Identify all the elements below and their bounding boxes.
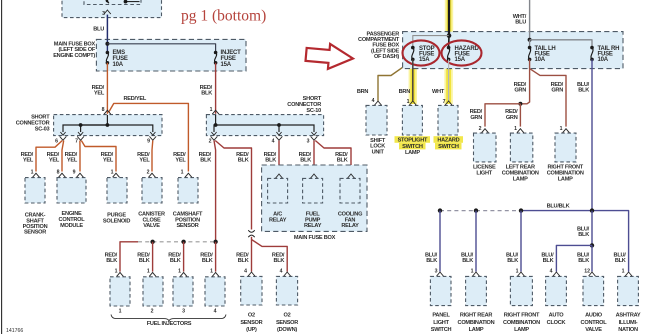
- junction node panel light switch: [438, 208, 442, 212]
- svg-text:SENSOR: SENSOR: [240, 320, 262, 326]
- wire RED/BLK to O2 sensor down: [252, 240, 288, 272]
- junction node injector 3: [181, 240, 185, 244]
- fuse STOP 15A: [411, 46, 415, 61]
- junction node right front lamp: [519, 208, 523, 212]
- label STOP FUSE 15A: [419, 46, 435, 63]
- component ashtray illumination box: [618, 276, 639, 305]
- pin connector O2 up: [248, 272, 255, 276]
- svg-text:CLOCK: CLOCK: [547, 320, 566, 326]
- pin number 3: [102, 11, 105, 17]
- svg-text:LAMP: LAMP: [558, 177, 573, 183]
- wire RED/YEL SC-03 pin6 to crankshaft position sensor: [36, 141, 62, 172]
- component audio control valve box: [583, 276, 604, 305]
- highlight over WHT wire to hazard switch: [444, 61, 452, 105]
- junction node tail fuses feed: [528, 38, 532, 42]
- wire RED/BLK bus to fuel injector 1: [120, 242, 138, 272]
- wire BLU/BLK to auto clock: [556, 245, 592, 271]
- svg-text:3: 3: [307, 138, 310, 144]
- label RIGHT FRONT COMBINATION LAMP: [503, 313, 540, 333]
- label INJECT FUSE 15A: [221, 50, 242, 68]
- label CANISTER CLOSE VALVE: [138, 211, 165, 229]
- pin number 4 O2 down: [280, 269, 283, 275]
- svg-text:ENGINE COMPT): ENGINE COMPT): [53, 53, 95, 59]
- junction node EMS/INJECT split: [105, 42, 109, 46]
- cylinder number 4: [214, 308, 217, 314]
- svg-text:1: 1: [516, 269, 519, 275]
- svg-text:LAMP: LAMP: [469, 327, 484, 333]
- label ASHTRAY ILLUMINATION: [616, 313, 641, 333]
- svg-text:1: 1: [514, 126, 517, 132]
- pin connector ECM 9: [77, 173, 84, 177]
- SC-10 internal stub pin4: [278, 125, 280, 132]
- pin connector fuel pump relay: [311, 174, 318, 178]
- component camshaft position sensor box: [178, 178, 198, 203]
- svg-text:1: 1: [111, 170, 114, 176]
- wire branch to stop fuse: [413, 36, 449, 48]
- svg-text:LAMP: LAMP: [513, 177, 528, 183]
- pin connector left rear combination lamp: [517, 129, 524, 133]
- svg-text:ASHTRAY: ASHTRAY: [616, 313, 641, 319]
- label RED/YEL crankshaft: [21, 152, 34, 164]
- pin connector ashtray illumination: [625, 272, 632, 276]
- component right front combination lamp (mid) box: [555, 133, 576, 162]
- svg-text:SWITCH: SWITCH: [402, 144, 423, 150]
- component right rear combination lamp box: [466, 276, 487, 305]
- pin number 1 injector 1: [115, 269, 118, 275]
- junction node auto clock split: [590, 243, 594, 247]
- svg-text:BLU: BLU: [93, 27, 104, 33]
- svg-text:10A: 10A: [113, 62, 124, 68]
- svg-text:BLK: BLK: [201, 91, 212, 97]
- wire RED/YEL SC-03 pin7 to purge solenoid: [81, 141, 116, 172]
- label WHT hazard: [432, 89, 445, 95]
- wire RED/BLK SC-10 pin4 to A/C relay: [278, 141, 280, 172]
- svg-text:LIGHT: LIGHT: [476, 170, 492, 176]
- svg-text:O2: O2: [284, 313, 291, 319]
- pin number 7 SC-03: [75, 138, 78, 144]
- junction node right rear lamp: [474, 208, 478, 212]
- wire BRN stop fuse to stoplight switch: [412, 59, 414, 100]
- wire RED/BLK SC-10 pin2 to fuel injector bus: [214, 141, 216, 242]
- component fuel injector 2 box: [143, 277, 163, 306]
- svg-text:1: 1: [147, 269, 150, 275]
- pin connector injector 2: [149, 272, 156, 276]
- svg-text:15A: 15A: [455, 57, 466, 63]
- svg-text:SENSOR: SENSOR: [24, 230, 46, 236]
- brace under fuel injectors: [111, 315, 226, 321]
- svg-text:1: 1: [622, 269, 625, 275]
- label BLU/BLK audio control: [577, 252, 590, 264]
- label COOLING FAN RELAY: [338, 211, 362, 229]
- svg-text:141766: 141766: [6, 328, 23, 334]
- SC-03 internal bus right: [81, 125, 153, 132]
- svg-text:BLK: BLK: [507, 258, 518, 264]
- pin number 1 A/C relay: [274, 170, 277, 176]
- svg-text:YEL: YEL: [139, 158, 150, 164]
- svg-text:SC-03: SC-03: [35, 127, 50, 133]
- red circle around HAZARD fuse: [442, 40, 482, 65]
- junction node RED/GRN split: [518, 102, 522, 106]
- label LICENSE LIGHT: [473, 164, 496, 176]
- svg-text:2: 2: [151, 308, 154, 314]
- pin number 1 left rear lamp: [514, 126, 517, 132]
- label CAMSHAFT POSITION SENSOR: [173, 211, 203, 229]
- wire BLU/BLK bus to ashtray illumination: [521, 211, 629, 272]
- pin connector injector 4: [212, 272, 219, 276]
- label RED/BLK cooling fan relay: [335, 152, 348, 164]
- svg-text:BLK: BLK: [426, 258, 437, 264]
- pin connector injector 3: [180, 272, 187, 276]
- svg-text:YEL: YEL: [103, 158, 114, 164]
- svg-text:4: 4: [280, 269, 283, 275]
- svg-text:RELAY: RELAY: [341, 223, 359, 229]
- svg-text:6: 6: [55, 138, 58, 144]
- inner connector box of ignition switch: [84, 0, 141, 5]
- wire RED/BLK to fuel injector 3: [183, 242, 185, 272]
- pin number 2 canister: [147, 170, 150, 176]
- label RED/YEL (EMS feed): [92, 85, 105, 97]
- pin connector stoplight switch: [409, 101, 416, 105]
- svg-text:COMBINATION: COMBINATION: [547, 171, 584, 177]
- pin number 9 ECM: [73, 170, 76, 176]
- component auto clock box: [546, 276, 567, 305]
- page border line: [1, 0, 3, 334]
- svg-text:GRN: GRN: [514, 88, 526, 94]
- svg-text:BLK: BLK: [578, 232, 589, 238]
- pin connector O2 down: [284, 272, 291, 276]
- wire RED/BLK to fuel injector 4: [215, 242, 217, 272]
- svg-text:RIGHT FRONT: RIGHT FRONT: [504, 313, 540, 319]
- pin connector auto clock: [553, 272, 560, 276]
- svg-text:1: 1: [210, 107, 213, 113]
- label BRN stoplight: [399, 89, 411, 95]
- fuse TAIL RH 10A: [590, 46, 594, 61]
- wire branch to tail RH fuse: [530, 40, 592, 48]
- junction SC-03 bus pin7: [79, 123, 83, 127]
- wire BLU/BLK to right front combination lamp: [520, 211, 522, 272]
- svg-text:12: 12: [584, 269, 590, 275]
- svg-text:1: 1: [560, 126, 563, 132]
- label PANEL LIGHT SWITCH: [431, 313, 452, 333]
- svg-text:BLK: BLK: [106, 258, 117, 264]
- svg-text:9: 9: [73, 170, 76, 176]
- svg-text:1: 1: [119, 308, 122, 314]
- svg-text:BLK: BLK: [615, 258, 626, 264]
- label HAZARD FUSE 15A: [455, 46, 480, 63]
- svg-text:AUTO: AUTO: [549, 313, 565, 319]
- svg-text:RIGHT REAR: RIGHT REAR: [460, 313, 493, 319]
- label BLU/BLK auto clock: [541, 252, 554, 264]
- switch arrow symbol: [104, 0, 110, 3]
- pin connector A/C relay: [276, 174, 283, 178]
- svg-text:YEL: YEL: [23, 158, 34, 164]
- svg-text:BLK: BLK: [543, 258, 554, 264]
- passenger compartment fuse box: [403, 32, 623, 69]
- svg-text:8: 8: [102, 107, 105, 113]
- wire RED/GRN to license light: [485, 104, 520, 127]
- svg-text:BLK: BLK: [578, 88, 589, 94]
- pin connector audio control valve: [589, 272, 596, 276]
- label LEFT REAR COMBINATION LAMP: [502, 164, 539, 182]
- svg-text:2: 2: [479, 126, 482, 132]
- pin connector license light: [482, 129, 489, 133]
- svg-text:1: 1: [31, 170, 34, 176]
- highlight over BLK wire to hazard fuse: [445, 0, 453, 37]
- label RED/BLK injector 2: [137, 252, 150, 264]
- component fuel injector 3 box: [173, 277, 193, 306]
- fuse INJECT 15A: [214, 51, 218, 65]
- cylinder number 2: [151, 308, 154, 314]
- pin number 1 injector 3: [178, 269, 181, 275]
- wire BLU/BLK to right rear combination lamp: [475, 211, 477, 272]
- main fuse box (engine compartment): [96, 39, 246, 71]
- label HAZARD SWITCH: [437, 137, 459, 149]
- svg-text:VALVE: VALVE: [585, 327, 602, 333]
- pin number 3 SC-10: [307, 138, 310, 144]
- svg-text:(DOWN): (DOWN): [277, 327, 297, 333]
- label TAIL LH FUSE 10A: [535, 46, 556, 63]
- pin number 6 SC-03: [55, 138, 58, 144]
- pin number 8 ECM: [57, 170, 60, 176]
- label STOPLIGHT SWITCH LAMP: [398, 137, 428, 156]
- svg-text:10A: 10A: [535, 57, 546, 63]
- svg-text:BLK: BLK: [139, 258, 150, 264]
- svg-text:BLK: BLK: [170, 258, 181, 264]
- wire RED/YEL SC-03 pin9 to canister close valve: [151, 141, 154, 172]
- wire RED/BLK INJECT fuse to SC-10 pin 1: [215, 63, 217, 114]
- label RED/BLK injector 4: [200, 252, 213, 264]
- label RED/YEL ECM9: [65, 152, 78, 164]
- component hazard switch box: [438, 105, 458, 135]
- junction node injector 4: [213, 240, 217, 244]
- wire RED/GRN tail LH fuse down: [520, 69, 529, 104]
- contact lead: [126, 1, 140, 3]
- pin number 1 camshaft: [181, 170, 184, 176]
- label TAIL RH FUSE 10A: [598, 46, 620, 63]
- svg-text:4: 4: [550, 269, 553, 275]
- svg-text:BLK: BLK: [265, 158, 276, 164]
- label WHT/BLU: [513, 14, 527, 26]
- main fuse box (relay box): [262, 165, 367, 231]
- pin connector panel light switch: [437, 272, 444, 276]
- pin connector 2 of SC-10: [211, 132, 218, 140]
- svg-text:SC-10: SC-10: [306, 108, 321, 114]
- svg-text:BLK: BLK: [300, 158, 311, 164]
- label SHIFT LOCK UNIT: [370, 138, 386, 156]
- fuse EMS 10A: [106, 51, 110, 65]
- svg-text:2: 2: [147, 170, 150, 176]
- pin connector right front combination lamp mid: [563, 129, 570, 133]
- pin number 1 SC-10: [210, 107, 213, 113]
- svg-text:RED/YEL: RED/YEL: [124, 96, 147, 102]
- svg-text:UNIT: UNIT: [372, 150, 385, 156]
- SC-03 internal bus: [63, 115, 107, 132]
- svg-text:1: 1: [210, 269, 213, 275]
- label RIGHT REAR COMBINATION LAMP: [458, 313, 495, 333]
- label RED/GRN left rear lamp: [505, 109, 518, 121]
- label BLU/BLK trunk lower: [577, 226, 590, 238]
- svg-text:BLK: BLK: [202, 258, 213, 264]
- fuse HAZARD 15A: [447, 46, 451, 61]
- svg-text:15A: 15A: [221, 62, 232, 68]
- svg-text:FUEL INJECTORS: FUEL INJECTORS: [147, 321, 192, 327]
- svg-text:1: 1: [471, 269, 474, 275]
- svg-text:3: 3: [102, 11, 105, 17]
- pin number 3 panel light switch: [435, 269, 438, 275]
- pin number 1 right front lamp mid: [560, 126, 563, 132]
- component panel light switch box: [430, 276, 451, 305]
- component A/C relay box: [268, 178, 288, 203]
- pin connector hazard switch: [445, 101, 452, 105]
- label RED/YEL purge: [101, 152, 114, 164]
- pin number 1 injector 4: [210, 269, 213, 275]
- label SHORT CONNECTOR SC-10: [287, 96, 322, 114]
- pin number 1 crankshaft: [31, 170, 34, 176]
- wire BLK from top to fuse box: [448, 0, 450, 36]
- pin connector crankshaft: [33, 173, 40, 177]
- pin number 4 auto clock: [550, 269, 553, 275]
- label A/C RELAY: [269, 211, 287, 223]
- label RED/BLK injector feed: [199, 152, 212, 164]
- junction SC-10 bus pin1: [214, 123, 218, 127]
- wire BLU/BLK tail RH fuse trunk: [591, 59, 593, 210]
- svg-text:LEFT REAR: LEFT REAR: [506, 164, 535, 170]
- svg-text:GRN: GRN: [551, 88, 563, 94]
- label FUEL PUMP RELAY: [304, 211, 322, 229]
- page annotation pg 1 (bottom): [181, 7, 266, 24]
- pin connector 8 on SC-03 top: [104, 110, 111, 114]
- label RED/GRN license light: [470, 109, 483, 121]
- wire RED/BLK to O2 sensor up: [251, 237, 253, 272]
- pin number 1 purge: [111, 170, 114, 176]
- label RED/BLK O2 up: [236, 252, 249, 264]
- wire BLU ignition to main fuse box: [106, 15, 108, 40]
- svg-text:SENSOR: SENSOR: [276, 320, 298, 326]
- pin number 1 right rear lamp: [471, 269, 474, 275]
- svg-text:4: 4: [244, 269, 247, 275]
- pin number 4 SC-10: [272, 138, 275, 144]
- label RED/BLK O2 down: [272, 252, 285, 264]
- junction node trunk/bus: [590, 208, 594, 212]
- label MAIN FUSE BOX (LEFT SIDE OF ENGINE COMPT): [53, 41, 96, 59]
- label RED/BLK fuel pump relay: [299, 152, 312, 164]
- label AUDIO CONTROL VALVE: [581, 313, 608, 333]
- svg-text:9: 9: [147, 138, 150, 144]
- svg-text:8: 8: [57, 170, 60, 176]
- pin connector 6 of SC-03: [60, 132, 67, 140]
- junction SC-03 bus pin8: [106, 123, 110, 127]
- svg-text:LAMP: LAMP: [514, 327, 529, 333]
- short connector SC-03 box: [54, 115, 162, 136]
- component O2 sensor up box: [241, 276, 262, 305]
- svg-text:BLU: BLU: [515, 20, 526, 26]
- svg-text:WHT: WHT: [432, 89, 445, 95]
- label BLU/BLK right rear: [461, 252, 474, 264]
- component stoplight switch box: [402, 105, 422, 135]
- pin number 7 hazard switch: [443, 99, 446, 105]
- label SHORT CONNECTOR SC-03: [16, 115, 51, 133]
- wire RED/BLK to fuel injector 2: [152, 242, 154, 272]
- svg-text:7: 7: [75, 138, 78, 144]
- svg-text:4: 4: [272, 138, 275, 144]
- wire RED/YEL EMS fuse to SC-03 pin 8: [106, 63, 108, 114]
- bus BLU/BLK dashed segment: [440, 210, 521, 212]
- label AUTO CLOCK: [547, 313, 566, 326]
- svg-text:10A: 10A: [598, 57, 609, 63]
- pin number 1 ashtray: [622, 269, 625, 275]
- label BLU/BLK trunk upper: [577, 82, 590, 94]
- label RED/YEL camshaft: [173, 152, 186, 164]
- svg-text:HAZARD: HAZARD: [437, 137, 459, 143]
- svg-text:SOLENOID: SOLENOID: [103, 218, 130, 224]
- pin connector right rear combination lamp: [473, 272, 480, 276]
- svg-text:COMBINATION: COMBINATION: [503, 320, 540, 326]
- inline connector on O2 feed: [248, 230, 254, 237]
- label ENGINE CONTROL MODULE: [59, 211, 86, 229]
- svg-text:BLK: BLK: [462, 258, 473, 264]
- label O2 SENSOR (DOWN): [276, 313, 298, 333]
- highlight behind HAZARD SWITCH text: [434, 136, 464, 149]
- component O2 sensor down box: [276, 276, 297, 305]
- fuse TAIL LH 10A: [528, 46, 532, 61]
- wire WHT/BLU from top: [529, 0, 531, 40]
- label BLU/BLK ashtray: [614, 252, 627, 264]
- junction node stop/hazard feed: [447, 33, 452, 38]
- label RED/BLK (INJECT feed): [200, 85, 213, 97]
- svg-text:YEL: YEL: [94, 91, 105, 97]
- svg-text:BLU/BLK: BLU/BLK: [547, 203, 570, 209]
- pin connector purge solenoid: [113, 173, 120, 177]
- label BLU/BLK panel switch: [425, 252, 438, 264]
- label RED/BLK injector 1: [105, 252, 118, 264]
- wire BLU/BLK trunk to lower junction: [591, 211, 593, 246]
- component left rear combination lamp box: [510, 133, 532, 162]
- pin number 1 cooling fan relay: [343, 170, 346, 176]
- svg-text:YEL: YEL: [67, 158, 78, 164]
- component fuel injector 1 box: [110, 277, 130, 306]
- pin connector right front combination lamp: [518, 272, 525, 276]
- svg-text:MAIN FUSE BOX: MAIN FUSE BOX: [294, 235, 336, 241]
- component purge solenoid box: [107, 178, 127, 203]
- svg-text:1: 1: [407, 99, 410, 105]
- pin connector 4 of SC-10: [276, 132, 283, 140]
- svg-text:15A: 15A: [419, 57, 430, 63]
- pin number 1 fuel pump relay: [307, 170, 310, 176]
- svg-text:BLK: BLK: [238, 258, 249, 264]
- wire into EMS fuse: [106, 39, 108, 52]
- pin connector 3 of SC-10: [311, 132, 318, 140]
- svg-text:AUDIO: AUDIO: [585, 313, 603, 319]
- cylinder number 1: [119, 308, 122, 314]
- wire RED/YEL SC-03 pin6 to ECM pin 8: [62, 141, 64, 172]
- wire RED/GRN to left rear combination lamp: [519, 104, 521, 127]
- pin number 2 license light: [479, 126, 482, 132]
- svg-text:BLK: BLK: [337, 158, 348, 164]
- short connector SC-10 box: [206, 115, 323, 136]
- label RED/BLK A/C relay: [264, 152, 277, 164]
- label MAIN FUSE BOX caption: [294, 235, 336, 241]
- svg-text:BRN: BRN: [357, 89, 369, 95]
- label BLU/BLK bus: [547, 203, 570, 209]
- contact dot in ignition box: [124, 0, 128, 4]
- pin connector ECM 8: [59, 173, 66, 177]
- svg-text:1: 1: [181, 170, 184, 176]
- svg-text:BLK: BLK: [273, 258, 284, 264]
- label RED/GRN right front lamp: [551, 82, 564, 94]
- pin connector 9 of SC-03: [149, 132, 156, 140]
- svg-text:1: 1: [115, 269, 118, 275]
- svg-text:BRN: BRN: [399, 89, 411, 95]
